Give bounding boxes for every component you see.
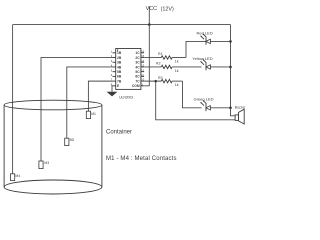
IC U1 ULN2003: [111, 49, 145, 100]
wire M3 probe to pin 2B: [41, 58, 113, 161]
svg-text:16: 16: [141, 49, 144, 53]
svg-text:3C: 3C: [135, 61, 140, 65]
svg-text:M1: M1: [91, 112, 96, 116]
svg-text:6B: 6B: [117, 75, 122, 79]
LED D1 Red LED: [197, 30, 231, 44]
svg-text:M1 - M4 : Metal Contacts: M1 - M4 : Metal Contacts: [106, 156, 177, 162]
wire M4 probe from rail into container: [12, 25, 14, 174]
container tank: [4, 100, 102, 194]
svg-text:1k: 1k: [175, 83, 179, 87]
svg-text:Yellow LED: Yellow LED: [192, 56, 212, 61]
resistor R3 1k: [144, 76, 182, 87]
svg-text:(12V): (12V): [161, 7, 174, 13]
svg-text:5B: 5B: [117, 70, 122, 74]
svg-text:7C: 7C: [135, 79, 140, 83]
svg-text:5: 5: [111, 68, 113, 72]
svg-text:Container: Container: [106, 130, 132, 136]
svg-text:4B: 4B: [117, 65, 122, 69]
svg-text:Red LED: Red LED: [197, 30, 213, 35]
svg-text:14: 14: [141, 59, 144, 63]
node junction green row on bus: [229, 107, 232, 110]
svg-text:M3: M3: [44, 161, 49, 165]
resistor R2 1k: [144, 61, 201, 73]
svg-text:12: 12: [141, 68, 144, 72]
svg-text:R3: R3: [158, 76, 163, 80]
node junction red row on bus: [229, 40, 232, 43]
svg-text:7B: 7B: [117, 79, 122, 83]
svg-text:Buzzer: Buzzer: [235, 106, 246, 110]
svg-text:COM: COM: [132, 84, 140, 88]
svg-text:6C: 6C: [135, 75, 140, 79]
svg-text:5C: 5C: [135, 70, 140, 74]
wire VCC bus right vertical to buzzer top: [231, 25, 236, 116]
wire 7C branch down and right to buzzer: [156, 81, 235, 120]
wire R1 up to red LED row: [186, 41, 202, 57]
svg-text:1: 1: [111, 49, 113, 53]
wire M2 probe to pin 4B: [67, 67, 113, 138]
svg-text:3B: 3B: [117, 61, 122, 65]
power VCC (12V) symbol: [146, 6, 174, 24]
svg-text:2C: 2C: [135, 56, 140, 60]
resistor R1 1k: [144, 52, 186, 64]
wire R3 down to green LED row: [183, 81, 202, 108]
svg-text:R2: R2: [156, 61, 161, 65]
svg-text:M2: M2: [70, 138, 75, 142]
svg-text:1k: 1k: [175, 60, 179, 64]
ground at pin E: [107, 86, 118, 97]
svg-text:R1: R1: [158, 52, 163, 56]
svg-text:1C: 1C: [135, 51, 140, 55]
svg-text:1B: 1B: [117, 51, 122, 55]
LED D3 Green LED: [194, 96, 231, 111]
svg-text:VCC: VCC: [146, 6, 157, 12]
metal contact M2: [65, 138, 75, 145]
svg-text:M4: M4: [15, 174, 20, 178]
svg-text:1k: 1k: [175, 69, 179, 73]
metal contact M3: [39, 161, 49, 169]
svg-text:2B: 2B: [117, 56, 122, 60]
node junction VCC stem on rail: [148, 23, 151, 26]
svg-text:ULN2003: ULN2003: [119, 95, 133, 99]
wire COM pin to VCC stem: [144, 25, 149, 86]
svg-text:6: 6: [111, 73, 113, 77]
metal contact M4: [11, 174, 21, 181]
node junction buzzer branch on 7C wire: [154, 80, 157, 83]
svg-text:3: 3: [111, 59, 113, 63]
wire M1 probe to pin 7B: [88, 81, 112, 111]
LED D2 Yellow LED: [192, 56, 230, 70]
svg-text:Green LED: Green LED: [194, 96, 214, 101]
node junction yellow row on bus: [229, 66, 232, 69]
buzzer BZ1: [235, 106, 246, 124]
metal contact M1: [86, 111, 96, 118]
svg-text:4C: 4C: [135, 65, 140, 69]
wire VCC rail top: [13, 24, 231, 26]
